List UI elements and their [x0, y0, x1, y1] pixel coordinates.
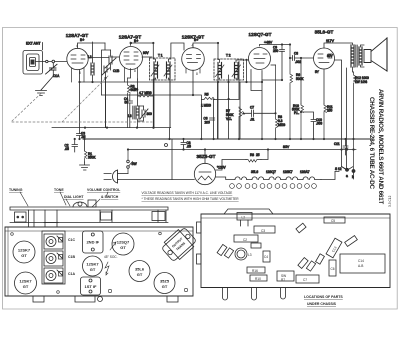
heater bus: [118, 179, 194, 181]
oscillator box wires: [138, 79, 154, 128]
capacitor C3: [77, 134, 83, 140]
capacitor C12 rect input: [181, 139, 186, 150]
leader lines: [20, 192, 108, 207]
svg-text:V.C.: V.C.: [226, 117, 232, 121]
wire tube V3 bottom: [192, 70, 194, 95]
svg-text:DIAL LIGHT: DIAL LIGHT: [64, 195, 84, 199]
wire plug bottom prong to heater bus: [117, 179, 120, 181]
1st IF can: [81, 277, 101, 295]
wire tube V1 bottom: [79, 70, 81, 134]
svg-text:350K: 350K: [88, 156, 96, 160]
bar supports: [15, 210, 167, 227]
svg-text:500K: 500K: [296, 77, 304, 81]
svg-text:& SWITCH: & SWITCH: [101, 195, 119, 199]
resistor R11: [324, 104, 327, 139]
tube V2 pin labels: [129, 41, 136, 73]
svg-text:1 MEG: 1 MEG: [201, 104, 211, 108]
svg-text:b: b: [352, 175, 354, 179]
ground under C1A: [36, 91, 47, 96]
svg-text:R8: R8: [250, 153, 254, 157]
svg-text:35Z5: 35Z5: [160, 279, 170, 284]
svg-text:C4: C4: [264, 255, 268, 259]
svg-text:GT: GT: [162, 284, 168, 289]
svg-text:C5: C5: [331, 219, 335, 223]
part C5 under: [324, 217, 345, 223]
svg-text:TONE: TONE: [54, 188, 64, 192]
capacitor C7 horizontal: [243, 110, 276, 117]
top tabs: [224, 209, 273, 214]
tube V1 pin labels: [76, 44, 81, 75]
resistor R10: [301, 104, 304, 139]
resistor R4 horizontal: [138, 95, 154, 98]
svg-text:12SQ7: 12SQ7: [266, 170, 276, 174]
svg-text:*120V: *120V: [217, 166, 227, 170]
svg-text:3-5 C12: 3-5 C12: [388, 195, 392, 207]
T2 primary coil: [216, 63, 225, 79]
capacitor C1B variable: [105, 50, 116, 70]
svg-text:50: 50: [125, 101, 129, 105]
chassis inner edge: [5, 227, 193, 296]
vertical title line 2: [368, 97, 375, 189]
svg-text:B+: B+: [80, 38, 84, 42]
svg-text:C14: C14: [358, 259, 364, 263]
svg-text:5Y: 5Y: [315, 70, 320, 74]
svg-text:GT: GT: [21, 253, 27, 258]
T2 wires: [218, 43, 249, 139]
bus line y128: [52, 128, 171, 139]
part C3 under: [254, 226, 275, 233]
svg-text:GT: GT: [137, 272, 143, 277]
B minus bus y139: [83, 138, 372, 140]
heater pin circles: [230, 184, 317, 189]
svg-text:12SK7: 12SK7: [19, 279, 32, 284]
gang linkage dashed: [12, 76, 152, 122]
tube V3 pin stubs: [186, 68, 200, 73]
part R angled b: [224, 248, 233, 258]
power plug: [104, 170, 118, 183]
socket note: [104, 255, 118, 259]
heater wire into rectifier: [216, 177, 235, 180]
svg-text:P.L.: P.L.: [294, 111, 299, 115]
svg-text:C6: C6: [331, 267, 335, 271]
svg-text:T 1: T 1: [158, 54, 163, 58]
svg-text:R5: R5: [205, 93, 209, 97]
svg-text:2ND IF: 2ND IF: [86, 240, 99, 245]
wire top bus to V2 grid: [102, 43, 111, 95]
svg-text:90V: 90V: [143, 51, 150, 55]
wire tube V4 plate top: [260, 45, 291, 47]
T1 primary coil: [151, 62, 159, 78]
35Z5 socket: [154, 273, 175, 294]
svg-text:12SA7: 12SA7: [300, 170, 310, 174]
capacitor C8 coupling: [290, 56, 313, 61]
svg-text:UNDER CHASSIS: UNDER CHASSIS: [307, 302, 337, 306]
svg-text:250: 250: [273, 49, 279, 53]
T1 secondary coil: [164, 62, 172, 78]
svg-text:EXT ANT: EXT ANT: [26, 42, 41, 46]
capacitor C6: [210, 118, 215, 120]
resistor R13 surge: [246, 160, 261, 163]
part small angled x3: [316, 254, 325, 264]
tuning shaft: [88, 200, 96, 207]
capacitor C11: [343, 139, 348, 155]
wire rect plate: [204, 150, 206, 163]
T3 wires: [353, 45, 365, 72]
IF transformer T1 dashed can: [150, 58, 176, 80]
svg-text:L3: L3: [248, 253, 252, 257]
label C12 edge: [388, 195, 392, 207]
part C2 under: [234, 235, 258, 242]
resistor R5 1 MEG horizontal: [201, 97, 214, 99]
under chassis box: [201, 214, 390, 288]
part L3 ring: [235, 248, 247, 260]
svg-text:12SQ7-GT: 12SQ7-GT: [248, 32, 271, 37]
capacitor C4: [127, 94, 133, 128]
wire output secondary drops: [335, 60, 347, 170]
resistor R6 diode load: [290, 45, 293, 140]
svg-text:MEG: MEG: [278, 123, 286, 127]
wire loop to grid: [36, 61, 68, 63]
svg-text:L3: L3: [128, 114, 132, 118]
AVC bus wire: [80, 81, 263, 83]
wire heater to line switch: [321, 172, 335, 180]
wire tube V3 plate top: [193, 43, 218, 48]
wire R10 top: [300, 58, 302, 104]
svg-text:45° SOC.: 45° SOC.: [104, 255, 118, 259]
dial bar: [10, 207, 168, 210]
wire rect left leg: [171, 139, 173, 180]
svg-text:35L6: 35L6: [251, 170, 258, 174]
wire V2 grid left: [111, 56, 120, 58]
svg-text:C3: C3: [261, 229, 265, 233]
12SK7 socket mid: [83, 256, 103, 276]
tube V1 pin stubs: [72, 68, 85, 83]
chassis feet: [33, 296, 178, 302]
tube V4 12SQ7-GT: [249, 48, 271, 70]
svg-text:4: 4: [192, 44, 194, 48]
svg-text:.05: .05: [187, 145, 192, 149]
wire tube V2 top plate: [131, 43, 154, 45]
svg-text:C11: C11: [334, 142, 340, 146]
svg-text:ARVIN RADIOS, MODELS 660T AND: ARVIN RADIOS, MODELS 660T AND 661T: [377, 89, 384, 204]
svg-text:.006: .006: [316, 122, 322, 126]
vertical title line 1: [377, 89, 384, 204]
svg-text:35L6-GT: 35L6-GT: [315, 30, 334, 35]
svg-text:C7: C7: [303, 278, 307, 282]
svg-text:* THESE READINGS TAKEN WITH: * THESE READINGS TAKEN WITH HIGH OHM TUB…: [142, 197, 240, 201]
svg-text:R16: R16: [252, 269, 258, 273]
part SW under: [277, 271, 294, 281]
tube V1 12SA7-GT: [67, 48, 88, 69]
svg-text:80V: 80V: [327, 54, 334, 58]
part R angled a: [217, 244, 227, 255]
wire tube V2 bottom: [128, 69, 131, 78]
svg-text:A-B: A-B: [358, 264, 363, 268]
svg-text:200: 200: [205, 121, 211, 125]
svg-text:C1C: C1C: [68, 238, 75, 242]
part C14 electrolytic: [340, 254, 385, 273]
output transformer T3: [351, 45, 362, 67]
arrow bolt 1: [110, 242, 116, 250]
svg-text:8: 8: [79, 71, 81, 75]
tube V6 rectifier 35Z5-GT: [194, 163, 215, 184]
terminal circle misc: [165, 144, 168, 147]
tube V2 pin stubs: [125, 68, 138, 83]
part small res: [251, 243, 261, 248]
wire diode drop: [251, 70, 262, 140]
svg-text:a: a: [346, 174, 348, 178]
svg-text:.002: .002: [295, 60, 301, 64]
svg-text:C1A: C1A: [68, 272, 75, 276]
wire tube V1 plate to top: [78, 43, 106, 48]
resistor R7 volume control: [239, 107, 245, 139]
svg-text:+48V: +48V: [264, 41, 273, 45]
wire plug to switch: [118, 173, 129, 175]
svg-text:12SQ7: 12SQ7: [117, 240, 130, 245]
svg-text:T 2: T 2: [226, 54, 231, 58]
wire R5 right drop: [214, 100, 239, 140]
gang capacitor assembly: [42, 231, 65, 284]
svg-text:L2: L2: [88, 55, 92, 59]
tube V5 35L6-GT: [314, 48, 335, 69]
ground under R1: [80, 162, 90, 170]
oscillator coil L3: [133, 106, 139, 128]
svg-text:VOLUME CONTROL: VOLUME CONTROL: [87, 188, 121, 192]
wire V2 right to T1: [142, 56, 152, 58]
svg-text:12SA7-GT: 12SA7-GT: [66, 33, 89, 38]
locations text: [304, 295, 343, 306]
wire rect cathode: [216, 150, 268, 171]
svg-text:35L6: 35L6: [135, 267, 145, 272]
arrow bolt 2: [105, 262, 109, 275]
svg-text:GT: GT: [23, 284, 29, 289]
svg-text:1W 10%: 1W 10%: [355, 80, 367, 84]
35L6 socket: [129, 261, 150, 282]
wire drops from T coils: [106, 72, 241, 139]
T1 wires: [153, 43, 184, 128]
svg-text:12SK7: 12SK7: [18, 248, 31, 253]
wire tube V5 top: [324, 43, 353, 48]
svg-text:CHASSIS RE-284, 6 TUBE AC-DC: CHASSIS RE-284, 6 TUBE AC-DC: [368, 97, 375, 189]
svg-text:C8: C8: [294, 52, 298, 56]
under feet: [223, 288, 286, 301]
wire R1 top: [84, 139, 86, 151]
wire T2 grid avc drop: [246, 60, 248, 82]
svg-text:C1A: C1A: [53, 74, 60, 78]
IF transformer T2 dashed can: [214, 59, 244, 80]
svg-text:.01: .01: [250, 118, 255, 122]
control labels: [9, 188, 121, 199]
svg-text:R10: R10: [255, 277, 261, 281]
resistor R8 3.3 meg: [276, 65, 279, 139]
part C4 vertical: [263, 251, 270, 262]
chassis holes: [11, 232, 188, 293]
svg-text:C1B: C1B: [68, 255, 75, 259]
svg-text:B+: B+: [194, 38, 198, 42]
tube V3 12SK7-GT: [182, 48, 205, 71]
side brackets: [197, 222, 202, 264]
2nd IF can: [83, 231, 104, 253]
svg-text:12SK7: 12SK7: [86, 262, 99, 267]
capacitor C2 line bypass: [72, 139, 78, 152]
svg-text:R7: R7: [281, 278, 285, 282]
svg-text:C2: C2: [243, 238, 247, 242]
svg-text:TUNING: TUNING: [9, 188, 23, 192]
svg-text:150: 150: [327, 109, 333, 113]
bus 80V y149.5: [128, 149, 356, 151]
T2 secondary coil: [232, 63, 241, 79]
coil L2 antenna coupling: [91, 42, 94, 82]
tube socket 12SK7 bottom: [15, 272, 37, 294]
part R10 under: [250, 275, 267, 281]
svg-text:C1B: C1B: [113, 69, 119, 73]
tube V2 12SA7-GT: [120, 47, 143, 70]
svg-text:GT: GT: [90, 267, 96, 272]
part C13 angled: [326, 238, 342, 258]
screen bus wire: [102, 95, 202, 139]
power switch on volume: [127, 150, 133, 174]
svg-text:4: 4: [76, 44, 78, 48]
inner line: [201, 217, 390, 219]
resistor R3 cathode: [128, 78, 131, 128]
svg-text:VOLTAGE READINGS TAKEN WITH: VOLTAGE READINGS TAKEN WITH 117V A.C. LI…: [142, 191, 233, 195]
12SQ7 socket: [112, 233, 134, 255]
svg-text:S 12: S 12: [335, 167, 342, 171]
resistor R12: [354, 72, 357, 170]
line switch S12: [335, 167, 355, 180]
front lip line: [10, 222, 168, 224]
svg-text:80V: 80V: [283, 145, 290, 149]
svg-text:GT: GT: [120, 245, 126, 250]
heater bumps: [235, 177, 321, 180]
part R16: [247, 267, 265, 273]
capacitor C5 variable padder: [138, 106, 149, 121]
svg-text:L2: L2: [242, 216, 246, 220]
svg-text:C7: C7: [250, 106, 254, 110]
chassis box: [5, 227, 193, 296]
part L2 under: [237, 213, 252, 227]
resistor R1 volume: [85, 151, 88, 162]
wire V1 plate right: [88, 57, 109, 59]
capacitor C9: [262, 45, 285, 81]
output transformer chassis: [160, 226, 198, 264]
part small angled x2: [306, 261, 315, 271]
part C6 vertical: [329, 260, 336, 276]
svg-text:8: 8: [134, 69, 136, 73]
part C7 under: [296, 275, 319, 283]
dial light dome: [73, 202, 87, 207]
speaker: [364, 38, 387, 71]
svg-text:12SK7: 12SK7: [283, 170, 293, 174]
svg-text:117V: 117V: [326, 39, 335, 43]
loop antenna L1: [23, 51, 43, 75]
svg-text:35Z5-GT: 35Z5-GT: [196, 154, 215, 159]
svg-text:.05: .05: [65, 147, 70, 151]
capacitor C10: [301, 112, 316, 139]
tube V3 pin labels: [192, 44, 199, 77]
wire R8 top: [271, 64, 276, 66]
svg-text:4.7 MEG: 4.7 MEG: [139, 91, 152, 95]
capacitor C1A variable: [41, 63, 57, 90]
grid terminal circles: [46, 60, 55, 63]
svg-text:B+: B+: [134, 39, 138, 43]
part angled near SW: [298, 258, 308, 269]
part R2 angled: [296, 223, 306, 233]
svg-text:25: 25: [256, 153, 260, 157]
junction dots: [74, 42, 355, 151]
trimmer C2: [102, 66, 110, 128]
wire tube V5 bottom: [323, 69, 325, 104]
part C10 angled: [345, 236, 358, 247]
svg-text:LOCATIONS OF PARTS: LOCATIONS OF PARTS: [304, 295, 343, 299]
gang labels: [68, 238, 75, 276]
tube socket 12SK7 top: [13, 241, 35, 263]
svg-text:SW: SW: [132, 162, 137, 166]
svg-text:300: 300: [147, 112, 153, 116]
ext ant wire: [42, 43, 44, 50]
svg-text:8: 8: [196, 72, 198, 76]
voltage note: [142, 191, 240, 201]
svg-text:1ST IF: 1ST IF: [84, 284, 97, 289]
